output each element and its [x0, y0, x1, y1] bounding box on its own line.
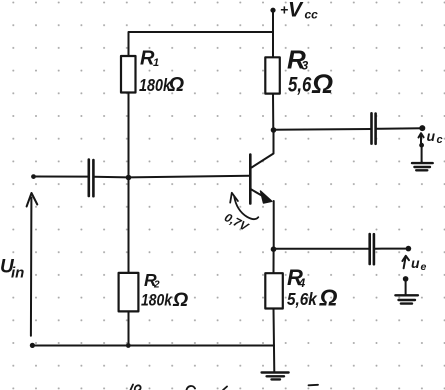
svg-text:2: 2	[153, 280, 160, 291]
svg-text:+: +	[280, 2, 288, 18]
svg-text:u: u	[427, 128, 436, 144]
svg-text:5,6: 5,6	[288, 74, 312, 97]
svg-text:Ω: Ω	[168, 74, 185, 96]
svg-text:Ω: Ω	[172, 289, 188, 311]
svg-text:5,6k: 5,6k	[287, 289, 317, 309]
svg-text:Ω: Ω	[311, 69, 333, 99]
svg-text:e: e	[421, 261, 427, 273]
svg-text:V: V	[288, 0, 304, 22]
svg-text:3: 3	[302, 59, 309, 73]
svg-text:180k: 180k	[139, 77, 172, 96]
svg-text:180k: 180k	[141, 291, 173, 310]
svg-text:Ω: Ω	[319, 285, 338, 311]
svg-text:u: u	[411, 255, 420, 271]
svg-text:cc: cc	[305, 8, 319, 22]
svg-text:c: c	[437, 134, 443, 146]
svg-text:1: 1	[153, 57, 159, 69]
svg-text:in: in	[11, 265, 24, 282]
